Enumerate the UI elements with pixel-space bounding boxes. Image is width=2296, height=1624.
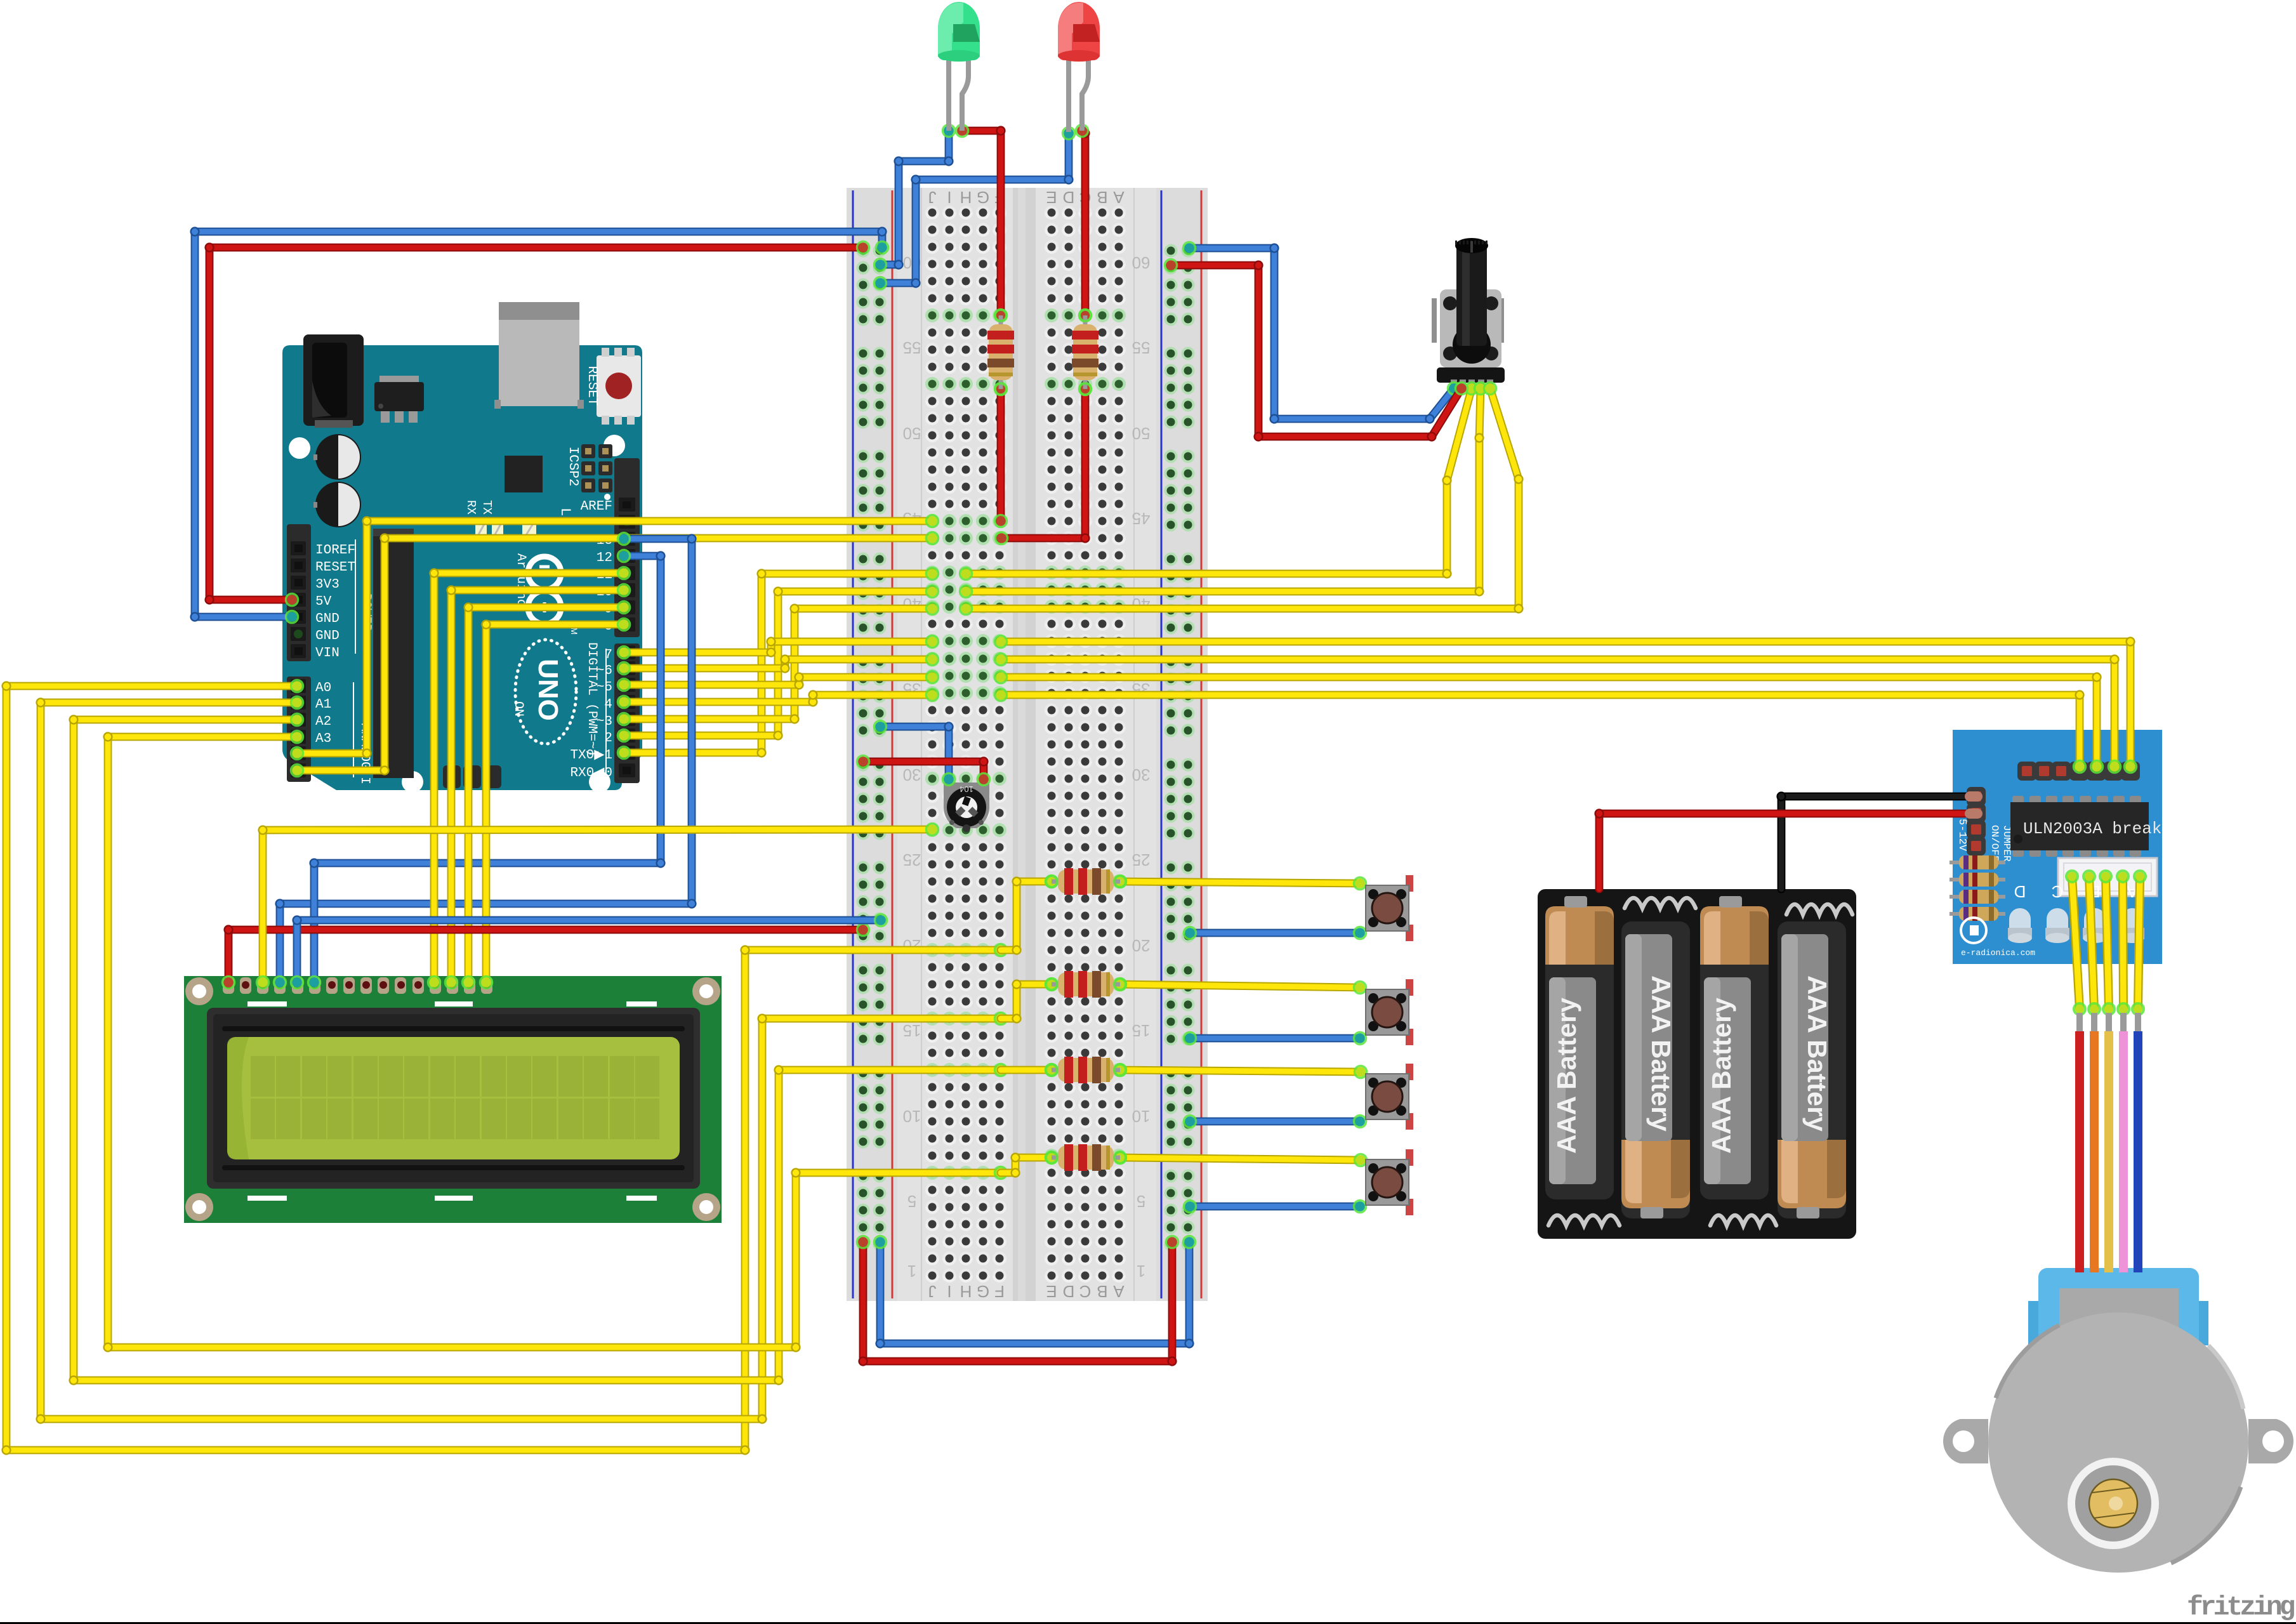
svg-text:G: G: [977, 1282, 989, 1301]
indicator LEDs on ULN board: [2008, 882, 2032, 943]
IC ULN2003A: [2010, 796, 2161, 857]
svg-text:TX: TX: [480, 500, 494, 515]
svg-text:L: L: [557, 508, 573, 516]
wire F row to ULN IN4: [995, 636, 2137, 773]
svg-text:H: H: [960, 188, 972, 207]
power header left: [287, 524, 373, 661]
svg-text:50: 50: [1132, 424, 1151, 443]
svg-text:25: 25: [1132, 850, 1151, 869]
svg-text:ICSP2: ICSP2: [565, 446, 580, 486]
wire A2 loop to button3 row: [69, 714, 1006, 1385]
svg-text:30: 30: [1132, 765, 1151, 784]
ON LED: [511, 519, 536, 716]
stepper motor M1: [1943, 1268, 2293, 1573]
svg-text:ON: ON: [511, 701, 525, 716]
svg-text:IOREF: IOREF: [315, 543, 355, 558]
svg-text:A3: A3: [315, 732, 331, 746]
wire green LED anode to F57: [956, 125, 1007, 322]
svg-text:VIN: VIN: [315, 646, 340, 661]
svg-text:5V: 5V: [315, 595, 332, 609]
analog header left: [287, 677, 372, 784]
svg-text:AREF: AREF: [581, 499, 612, 514]
USB connector J2: [494, 302, 584, 409]
svg-text:ULN2003A break: ULN2003A break: [2023, 819, 2161, 838]
pushbutton S1: [1366, 875, 1413, 941]
wire D13 to LCD pin4: [274, 533, 697, 989]
wire rail to trimmer pin G30: [857, 756, 990, 786]
wire right rail - to pot pin1: [1184, 242, 1460, 424]
Arduino Uno board U1: [282, 345, 642, 793]
battery holder BT1: [1538, 889, 1856, 1239]
wire right rail + to pot pin2: [1165, 260, 1468, 442]
Arduino logo: [513, 553, 579, 635]
svg-text:H: H: [960, 1282, 972, 1301]
wire LCD pin1 to rail +: [223, 924, 869, 989]
svg-text:3V3: 3V3: [315, 578, 340, 592]
wire button S2 to rail -: [1184, 1033, 1366, 1045]
battery springs: [1625, 898, 1696, 908]
svg-text:A0: A0: [315, 681, 331, 696]
svg-text:55: 55: [903, 338, 921, 357]
resistor R2: [1072, 310, 1099, 395]
svg-text:5-12V: 5-12V: [1956, 819, 1968, 852]
svg-text:B: B: [1097, 188, 1107, 207]
wire resistor R1 to F45: [995, 383, 1007, 527]
svg-text:5: 5: [907, 1192, 916, 1211]
LCD pin header: [223, 977, 492, 994]
svg-text:e-radionica.com: e-radionica.com: [1961, 948, 2035, 958]
svg-text:15: 15: [1132, 1021, 1151, 1040]
svg-text:AAA Battery: AAA Battery: [1552, 997, 1581, 1153]
wire resistor R6 to button S4: [1114, 1152, 1367, 1166]
svg-text:50: 50: [903, 424, 921, 443]
svg-text:F: F: [994, 1282, 1005, 1301]
svg-text:1: 1: [907, 1262, 916, 1281]
svg-text:55: 55: [1132, 338, 1151, 357]
wire red LED cathode to rail: [874, 128, 1075, 289]
svg-text:A: A: [1113, 1282, 1125, 1301]
svg-text:10: 10: [903, 1107, 921, 1126]
wire green LED cathode to rail: [874, 125, 955, 271]
LED red D2: [1058, 2, 1100, 132]
wire Arduino 5V to left rail +: [204, 242, 869, 606]
wire D12 to LCD pin6: [308, 550, 666, 989]
wire A0 loop to button1 row: [1, 680, 1006, 1455]
svg-text:1: 1: [1137, 1262, 1145, 1281]
wire button S4 to rail -: [1184, 1201, 1366, 1213]
svg-text:A: A: [1113, 188, 1125, 207]
wire F row to ULN IN2: [995, 671, 2103, 773]
pushbutton S4: [1366, 1149, 1413, 1215]
resistor R6: [1046, 1144, 1126, 1171]
resistors on ULN board: [1950, 855, 2005, 869]
svg-text:G: G: [977, 188, 989, 207]
svg-text:C: C: [2052, 882, 2064, 901]
svg-text:D: D: [1063, 188, 1075, 207]
reset button SW1: [584, 348, 641, 425]
wire end cap black at ULN: [1965, 791, 1983, 802]
wire LCD pin3 to trimmer row: [257, 824, 939, 989]
svg-text:J: J: [928, 188, 937, 207]
pushbutton S3: [1366, 1064, 1413, 1130]
wire battery - to ULN: [1776, 791, 1972, 889]
wire D5 to J row: [618, 671, 939, 691]
wire link to resistor R5 row: [1001, 1064, 1058, 1076]
LED green D1: [938, 2, 980, 131]
wire end cap red at ULN: [1965, 809, 1983, 819]
wire pot pin5 link: [960, 383, 1524, 615]
svg-text:RESET: RESET: [315, 560, 355, 575]
svg-text:D: D: [2014, 882, 2026, 901]
bottom border line: [0, 1622, 2296, 1624]
wire resistor R2 to F44: [996, 383, 1092, 545]
svg-text:15: 15: [903, 1021, 921, 1040]
wire pot pin4 link: [960, 383, 1487, 598]
wire A3 loop to button4 row: [103, 731, 1006, 1352]
header socket strip: [373, 529, 414, 778]
resistor R5: [1046, 1057, 1126, 1083]
breadboard: [847, 188, 1208, 1301]
wire D8 to LCD pin16: [480, 619, 630, 989]
wire bottom rail link +: [857, 1236, 1178, 1366]
trimmer potentiometer R_trim: [944, 782, 989, 832]
wire A1 loop to button2 row: [36, 697, 1006, 1424]
svg-text:GND: GND: [315, 629, 340, 644]
capacitor C1: [313, 434, 361, 480]
wire red LED anode to C57: [1076, 125, 1092, 322]
ISP pads: [443, 765, 501, 788]
wire D9 to LCD pin15: [463, 602, 630, 989]
wire bottom rail link -: [874, 1236, 1196, 1349]
resistor R1: [987, 310, 1014, 395]
svg-text:UNO: UNO: [532, 659, 564, 721]
resistor R4: [1046, 971, 1126, 998]
svg-text:Arduino: Arduino: [513, 553, 528, 607]
potentiometer R_pot: [1432, 238, 1505, 388]
svg-text:E: E: [1046, 188, 1057, 207]
svg-text:AAA Battery: AAA Battery: [1802, 975, 1832, 1132]
wire button S1 to rail -: [1184, 927, 1366, 939]
battery AAA 4: [1778, 921, 1846, 1218]
svg-text:fritzing: fritzing: [2187, 1592, 2295, 1623]
wire resistor R3 to button S1: [1114, 876, 1366, 890]
svg-text:30: 30: [903, 765, 921, 784]
digital header right: [570, 458, 640, 783]
pushbutton S2: [1366, 979, 1413, 1045]
wire jog to resistor R4 row: [1001, 979, 1058, 1024]
wire D1/TX to J row pot1: [618, 568, 939, 759]
svg-text:104: 104: [960, 784, 973, 794]
svg-text:45: 45: [1132, 509, 1151, 528]
svg-text:J: J: [928, 1282, 937, 1301]
wire resistor R5 to button S3: [1114, 1064, 1367, 1078]
wire LCD pin5 to rail -: [291, 914, 887, 989]
wire F row to ULN IN3: [995, 654, 2121, 773]
wire D7 to J row: [618, 636, 939, 659]
wire jog to resistor R3 row: [1001, 876, 1058, 955]
wire rail to trimmer pin I30: [874, 721, 955, 786]
svg-text:I: I: [947, 1282, 951, 1301]
battery AAA 2: [1621, 921, 1690, 1218]
LCD display LCD1: [184, 976, 722, 1223]
TX RX labels: [464, 500, 573, 539]
svg-text:RESET: RESET: [584, 366, 599, 406]
wire pot pin3 link: [960, 383, 1478, 580]
svg-text:I: I: [947, 188, 951, 207]
white connector on ULN board: [2058, 858, 2157, 896]
voltage regulator: [374, 376, 424, 423]
capacitor C2: [313, 482, 361, 527]
wire D3 to J row pot3: [618, 603, 939, 725]
svg-text:12: 12: [597, 551, 612, 565]
svg-text:A2: A2: [315, 715, 331, 729]
wire F row to ULN IN1: [995, 689, 2086, 773]
battery AAA 3: [1700, 906, 1769, 1199]
wire D2 to J row pot2: [618, 586, 939, 742]
UNO label: [515, 640, 576, 744]
svg-text:AAA Battery: AAA Battery: [1706, 997, 1736, 1153]
ribbon cable to stepper: [2066, 871, 2146, 1272]
svg-text:D: D: [1063, 1282, 1075, 1301]
wire D10 to LCD pin14: [445, 584, 630, 989]
svg-text:25: 25: [903, 850, 921, 869]
svg-text:GND: GND: [315, 612, 340, 626]
wire D4 to J row: [618, 689, 939, 708]
svg-text:10: 10: [1132, 1107, 1151, 1126]
barrel jack J1: [303, 334, 364, 428]
wire D11 to LCD pin13: [428, 567, 630, 989]
svg-text:DIGITAL (PWM=~): DIGITAL (PWM=~): [584, 642, 599, 756]
e-radionica logo: [1961, 918, 2035, 958]
svg-text:A1: A1: [315, 697, 331, 712]
svg-text:B: B: [1097, 1282, 1107, 1301]
wire Arduino GND to left rail -: [190, 227, 888, 623]
wire resistor R4 to button S2: [1114, 979, 1366, 994]
svg-text:C: C: [1079, 1282, 1092, 1301]
svg-text:E: E: [1046, 1282, 1057, 1301]
svg-text:20: 20: [1132, 936, 1151, 955]
wire D6 to J row: [618, 654, 939, 675]
microcontroller chip: [505, 456, 543, 492]
svg-text:AAA Battery: AAA Battery: [1646, 975, 1676, 1132]
svg-text:60: 60: [1132, 253, 1151, 272]
wire A5 to breadboard J44: [291, 532, 939, 777]
resistor R3: [1046, 868, 1126, 895]
wire jog to resistor R6 row: [1001, 1152, 1058, 1178]
wire battery + to ULN: [1594, 809, 1972, 889]
ICSP2 header: [565, 444, 612, 500]
battery AAA 1: [1545, 906, 1614, 1199]
wire button S3 to rail -: [1184, 1116, 1366, 1128]
ULN2003A breakout board U2: [1950, 730, 2162, 964]
svg-text:5: 5: [1137, 1192, 1145, 1211]
wire A4 to breadboard J45: [291, 515, 939, 760]
svg-text:RX: RX: [464, 500, 478, 515]
